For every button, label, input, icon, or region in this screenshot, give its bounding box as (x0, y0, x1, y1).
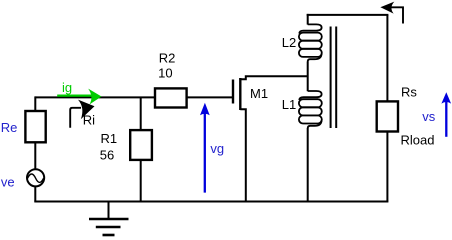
svg-text:ve: ve (1, 174, 15, 189)
svg-text:vg: vg (210, 141, 224, 156)
svg-text:56: 56 (100, 147, 114, 162)
svg-text:vs: vs (422, 109, 436, 124)
svg-text:L1: L1 (282, 97, 296, 112)
svg-text:Rload: Rload (401, 132, 435, 147)
svg-text:M1: M1 (250, 86, 268, 101)
svg-text:ig: ig (62, 80, 72, 95)
svg-text:R1: R1 (101, 131, 118, 146)
svg-text:Ri: Ri (83, 112, 95, 127)
svg-text:10: 10 (158, 66, 172, 81)
svg-text:Rs: Rs (401, 84, 417, 99)
svg-text:L2: L2 (282, 35, 296, 50)
svg-text:R2: R2 (159, 50, 176, 65)
svg-text:Re: Re (1, 120, 18, 135)
